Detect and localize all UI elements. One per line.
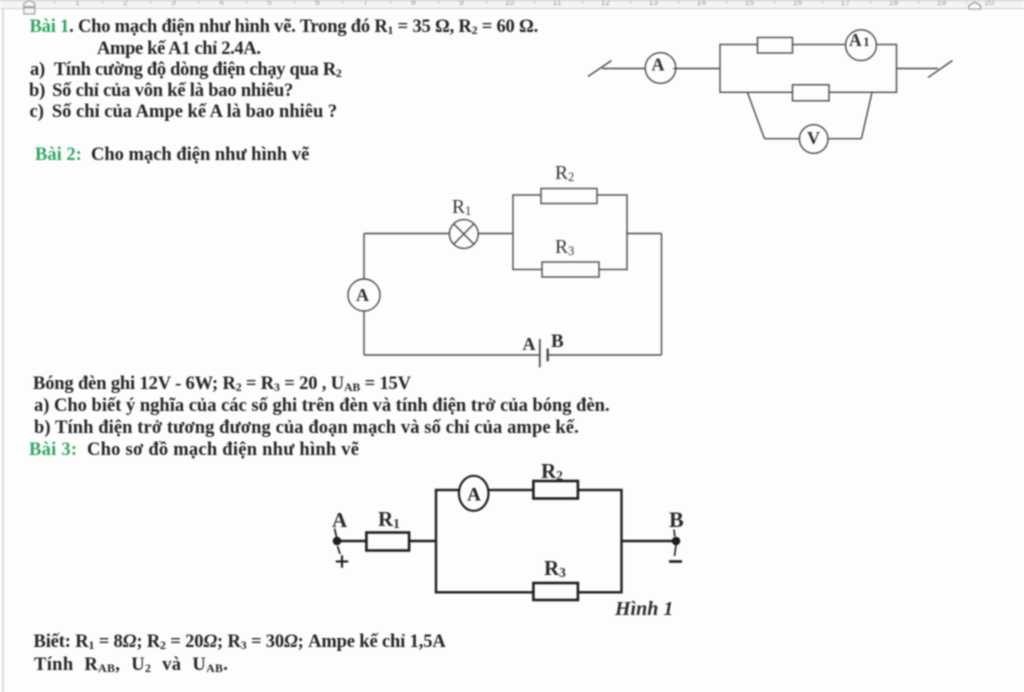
svg-text:V: V bbox=[807, 128, 820, 148]
svg-text:A: A bbox=[356, 285, 369, 305]
svg-text:1: 1 bbox=[863, 35, 869, 49]
svg-text:A: A bbox=[849, 30, 862, 50]
svg-text:A: A bbox=[467, 485, 481, 506]
svg-text:A: A bbox=[652, 55, 665, 75]
